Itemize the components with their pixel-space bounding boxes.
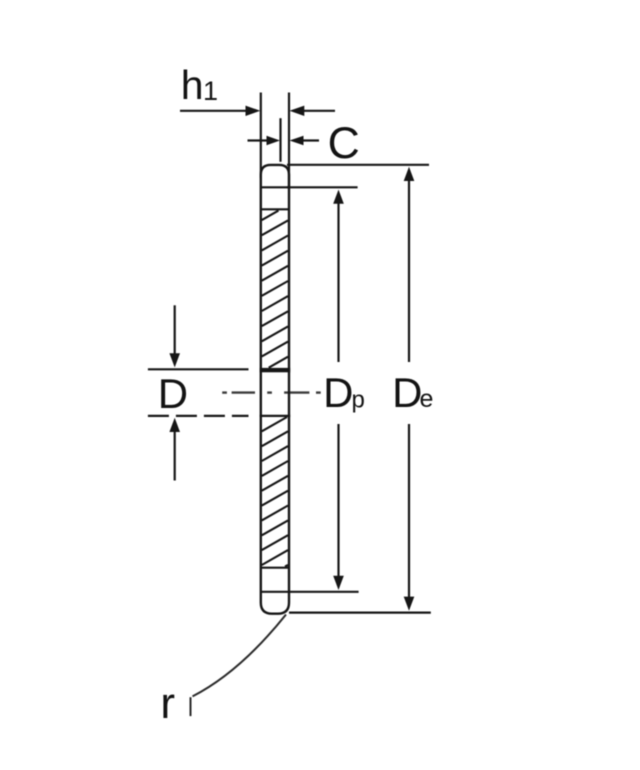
svg-text:D: D — [158, 370, 188, 417]
arrowhead De up — [404, 167, 415, 181]
extension line tooth inner edge (C) — [279, 118, 281, 162]
svg-text:D: D — [323, 369, 353, 416]
svg-text:p: p — [352, 387, 365, 414]
reference line De top — [287, 164, 429, 166]
svg-text:C: C — [328, 119, 360, 168]
arrowhead De down — [404, 597, 415, 611]
extension line right face (h1) — [288, 93, 290, 188]
dimension arrow line D bottom — [174, 432, 176, 481]
svg-text:h: h — [181, 62, 204, 108]
hatching lower section — [262, 417, 288, 567]
hatching upper section — [262, 211, 288, 368]
bore bottom edge — [260, 415, 291, 417]
reference line D lower (dashed) — [148, 415, 249, 417]
tooth cap base line top — [261, 186, 289, 188]
dimension line Dp vertical upper — [337, 202, 339, 362]
dimension line h1 left — [180, 110, 247, 112]
tooth cap base line bottom — [261, 591, 289, 593]
bore top edge (thick) — [260, 368, 291, 372]
dimension line h1 right — [303, 110, 336, 112]
dimension line C right — [303, 139, 320, 141]
leader curve for r — [193, 615, 287, 697]
svg-text:1: 1 — [203, 76, 218, 106]
arrowhead D down — [169, 353, 180, 367]
arrowhead Dp up — [333, 190, 344, 204]
reference line Dp top — [287, 186, 358, 188]
reference line Dp bottom — [289, 591, 359, 593]
svg-text:r: r — [160, 679, 175, 728]
hatch boundary line top — [261, 208, 289, 210]
leader tick for r — [190, 697, 192, 716]
dimension line De vertical lower — [408, 424, 410, 599]
centre line (dash-dot) — [222, 391, 321, 393]
reference line De bottom — [289, 611, 431, 613]
dimension line Dp vertical lower — [337, 424, 339, 578]
dimension line De vertical upper — [408, 179, 410, 362]
arrowhead C left (points right) — [267, 136, 281, 145]
reference line D upper — [148, 368, 249, 370]
hatch boundary line bottom — [261, 567, 289, 569]
svg-text:D: D — [392, 369, 422, 416]
arrowhead C right (points left) — [290, 136, 304, 145]
arrowhead Dp down — [333, 576, 344, 590]
dimension line C left — [248, 139, 268, 141]
extension line left face (h1) — [260, 93, 262, 179]
arrowhead D up — [169, 418, 180, 432]
arrowhead h1 left (points right) — [246, 106, 261, 116]
svg-text:e: e — [420, 385, 434, 413]
dimension arrow line D top — [174, 305, 176, 354]
sprocket plate outline with rounded tooth caps — [261, 165, 289, 614]
arrowhead h1 right (points left) — [290, 106, 305, 116]
